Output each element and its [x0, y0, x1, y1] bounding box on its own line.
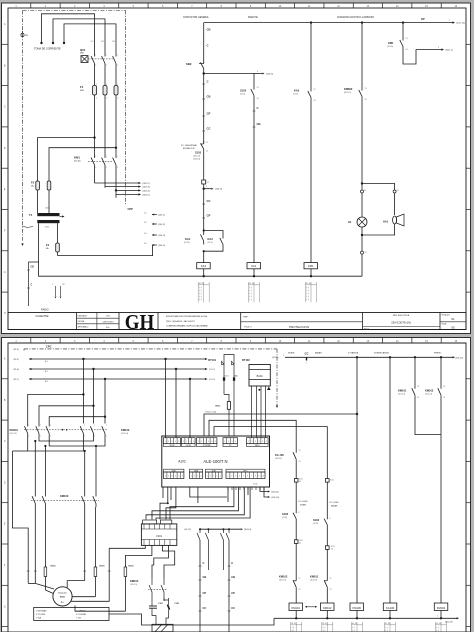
svg-text:APROBADO: APROBADO	[78, 326, 89, 329]
svg-text:2: 2	[40, 436, 41, 438]
crossover wire to KM101 pole1	[28, 394, 84, 423]
coil return bottom bus p2	[274, 617, 457, 619]
svg-text:1: 1	[106, 55, 107, 57]
svg-text:CP: CP	[231, 591, 235, 595]
bypass feeder wire left	[13, 451, 29, 583]
svg-text:2EVC3076-(N): 2EVC3076-(N)	[391, 321, 411, 325]
terminal X1 square on line 1	[202, 180, 206, 184]
svg-text:(301-4): (301-4)	[143, 190, 150, 192]
PE terminal	[21, 33, 24, 36]
svg-text:C: C	[231, 561, 233, 565]
svg-text:OP: OP	[421, 17, 425, 21]
page 2 inner border frame	[8, 343, 466, 632]
svg-text:1L1: 1L1	[91, 41, 94, 43]
svg-text:ALE-100/T N: ALE-100/T N	[203, 459, 227, 464]
A102 bottom terminal strip SUBIDA	[206, 472, 223, 479]
svg-text:-| -|: -| -|	[385, 627, 388, 629]
svg-text:4: 4	[175, 476, 176, 478]
svg-text:(31-16): (31-16)	[387, 46, 393, 48]
svg-text:-| -|: -| -|	[436, 627, 439, 629]
svg-text:0230: 0230	[45, 227, 49, 229]
svg-text:1: 1	[224, 441, 225, 443]
svg-text:RADIO: RADIO	[41, 309, 49, 312]
svg-text:5: 5	[262, 441, 263, 443]
svg-text:AVISADOR ACUSTICO-LUMINOSO: AVISADOR ACUSTICO-LUMINOSO	[337, 16, 374, 19]
svg-text:L: 5M: L: 5M	[76, 617, 81, 619]
svg-text:6: 6	[266, 441, 267, 443]
svg-text:KM101: KM101	[10, 428, 19, 432]
svg-text:KA106: KA106	[386, 606, 395, 610]
svg-text:(31-3): (31-3)	[14, 349, 20, 351]
bus terminal stub CC	[306, 357, 308, 360]
svg-text:9: 9	[259, 476, 260, 478]
svg-text:14: 14	[365, 99, 367, 101]
svg-text:R111: R111	[216, 406, 222, 408]
svg-text:DIBUJADO: DIBUJADO	[78, 314, 88, 317]
svg-text:4: 4	[235, 441, 236, 443]
svg-text:KM101: KM101	[310, 575, 319, 579]
svg-text:4: 4	[259, 441, 260, 443]
svg-text:(302-11): (302-11)	[272, 492, 280, 494]
svg-text:(101-4): (101-4)	[158, 245, 165, 247]
svg-text:1: 1	[84, 425, 85, 427]
svg-text:41 42: 41 42	[322, 623, 328, 625]
svg-text:TOMA DE CORRIENTE: TOMA DE CORRIENTE	[34, 48, 61, 51]
svg-text:(51-11): (51-11)	[184, 242, 190, 244]
svg-text:X111: X111	[299, 479, 303, 481]
svg-text:G.P.: G.P.	[106, 316, 110, 318]
wire A102 to V-rapida column	[204, 414, 357, 436]
brake coil KM104	[434, 603, 448, 611]
sobrecarga column wire	[389, 357, 391, 603]
terminal X111-02	[295, 522, 297, 540]
svg-text:D: D	[4, 147, 6, 150]
svg-text:41 42: 41 42	[436, 623, 442, 625]
svg-text:(47-6): (47-6)	[240, 94, 245, 96]
capacitor discharge wires	[152, 612, 156, 624]
reverser output crossover wires	[39, 438, 94, 442]
svg-text:KM1: KM1	[308, 264, 314, 268]
contactor coil KM101	[289, 603, 303, 611]
svg-text:1: 1	[96, 84, 97, 86]
svg-text:-| -|: -| -|	[306, 287, 309, 289]
svg-text:C: C	[207, 44, 209, 48]
svg-text:C/ ABERIN BEASAIN (GUIPUZCOA): C/ ABERIN BEASAIN (GUIPUZCOA) ESPAÑA	[166, 324, 208, 327]
svg-text:KA3: KA3	[208, 237, 214, 241]
svg-text:53: 53	[406, 38, 408, 40]
svg-text:S103: S103	[240, 89, 247, 93]
svg-text:1: 1	[40, 425, 41, 427]
svg-text:D: D	[4, 481, 6, 484]
svg-text:2: 2	[95, 65, 96, 67]
svg-text:(31-8): (31-8)	[293, 94, 298, 96]
phase wires to fuses	[94, 66, 96, 84]
A102 top terminal strip 4TS	[197, 438, 217, 444]
svg-text:M101: M101	[60, 596, 66, 598]
control line 1 wire upper	[203, 23, 205, 60]
transformer secondary wires	[38, 223, 40, 262]
arrow output 301-16	[264, 487, 268, 497]
svg-text:-| -|: -| -|	[249, 293, 252, 295]
svg-text:1: 1	[198, 441, 199, 443]
svg-text:TELF. (34)946690 - FAX 946721: TELF. (34)946690 - FAX 946721	[166, 320, 196, 323]
svg-text:KM102: KM102	[279, 575, 288, 579]
svg-text:-| -|: -| -|	[199, 287, 202, 289]
svg-text:22: 22	[299, 589, 301, 591]
svg-text:CB: CB	[207, 28, 211, 32]
svg-text:2: 2	[437, 616, 438, 618]
svg-text:2: 2	[117, 167, 118, 169]
svg-text:(101-12): (101-12)	[457, 23, 466, 25]
svg-text:G: G	[4, 271, 6, 274]
cross reference table under KA3	[197, 282, 199, 302]
radio feed wire	[29, 262, 39, 306]
svg-text:1: 1	[227, 476, 228, 478]
svg-text:-| -|: -| -|	[249, 290, 252, 292]
wire R111 to A102	[228, 409, 230, 436]
A102 top terminal strip VBUS	[164, 438, 181, 444]
svg-text:X1: X1	[207, 182, 209, 184]
wires KM100 down to motor terminals	[34, 507, 36, 583]
svg-text:(31-7): (31-7)	[14, 379, 20, 381]
svg-text:3: 3	[255, 441, 256, 443]
svg-text:(602-15): (602-15)	[344, 92, 352, 94]
svg-text:04: 04	[331, 549, 333, 551]
svg-text:23/07/2014: 23/07/2014	[103, 321, 115, 323]
svg-text:KA3: KA3	[201, 264, 207, 268]
mains enclosure dash-dot boundary	[23, 10, 126, 12]
svg-text:21: 21	[299, 578, 301, 580]
svg-text:SB2: SB2	[186, 62, 192, 66]
terminal X111-01	[295, 463, 297, 479]
staircase wires A102 right bottom	[170, 487, 234, 519]
svg-text:A-2: A-2	[45, 370, 48, 373]
svg-text:2: 2	[95, 167, 96, 169]
svg-text:KM102: KM102	[323, 606, 332, 610]
svg-text:CB: CB	[207, 95, 211, 99]
svg-text:(101-15): (101-15)	[130, 584, 138, 586]
svg-text:1: 1	[449, 20, 450, 22]
svg-text:41 42: 41 42	[199, 283, 205, 285]
control supply wire from F3 to CPP arrow	[58, 245, 153, 256]
svg-text:(101-14): (101-14)	[425, 394, 433, 396]
cross reference table under KA106 p2	[384, 622, 386, 632]
svg-text:E101: E101	[129, 566, 135, 568]
A102 top terminal strip VBOL	[247, 438, 269, 444]
page 2 right ruler ticks	[466, 378, 471, 380]
svg-text:C: C	[257, 106, 259, 110]
svg-text:X111: X111	[299, 540, 303, 542]
wire bus2 drop to A102	[175, 369, 177, 438]
svg-text:(105-16): (105-16)	[279, 580, 287, 582]
svg-text:3L2: 3L2	[101, 41, 104, 43]
freno branch contact KM102	[440, 357, 442, 385]
svg-text:-| -|: -| -|	[306, 299, 309, 301]
svg-text:05: 05	[451, 326, 455, 330]
control line 2 wire upper	[253, 74, 255, 87]
svg-text:(101-1): (101-1)	[158, 215, 165, 217]
svg-text:E101: E101	[51, 566, 57, 568]
svg-text:4: 4	[208, 441, 209, 443]
svg-text:4: 4	[217, 476, 218, 478]
A102 top terminal strip PC	[223, 438, 237, 444]
svg-text:A102: A102	[178, 460, 186, 464]
svg-text:-| -|: -| -|	[249, 287, 252, 289]
radio tap arrows	[55, 286, 57, 296]
V101 bottom wires to KM104	[162, 545, 174, 578]
page 1 outer border frame	[2, 3, 471, 334]
svg-text:(301-5): (301-5)	[143, 194, 150, 196]
svg-text:2: 2	[94, 436, 95, 438]
svg-text:S103: S103	[282, 512, 289, 516]
contactor coil KM1	[304, 263, 318, 269]
svg-text:L: CABLES: L: CABLES	[76, 609, 86, 612]
wire bus3 drop to A102	[189, 379, 191, 438]
svg-text:(31-16): (31-16)	[74, 161, 81, 163]
cross reference table under KM1	[305, 282, 307, 302]
svg-text:(105-13): (105-13)	[193, 156, 201, 158]
mechanical interlock symbol	[305, 606, 307, 608]
svg-text:KA3: KA3	[294, 89, 300, 93]
svg-text:PROTECCION: PROTECCION	[289, 325, 309, 329]
svg-text:3: 3	[172, 476, 173, 478]
svg-text:CC: CC	[305, 352, 309, 356]
svg-text:X100: X100	[253, 484, 257, 486]
svg-text:KM102: KM102	[425, 389, 434, 393]
svg-text:VBUS: VBUS	[169, 445, 175, 447]
discharge resistor hatched box	[152, 624, 173, 631]
svg-text:4: 4	[239, 476, 240, 478]
A102 bottom terminal strip BPC	[226, 472, 265, 479]
svg-text:01: 01	[299, 481, 301, 483]
svg-text:(31-6): (31-6)	[14, 369, 20, 371]
svg-text:(301-15): (301-15)	[456, 357, 464, 359]
svg-text:47Ωdm 0,46Ω: 47Ωdm 0,46Ω	[205, 411, 217, 413]
cross reference table under KM104 p2	[435, 622, 437, 632]
svg-text:KM104: KM104	[130, 579, 139, 583]
svg-text:14: 14	[417, 397, 419, 399]
terminal X111-04	[326, 528, 328, 546]
A102 bottom terminal strip LINE	[190, 472, 203, 479]
svg-text:6-1: 6-1	[144, 213, 147, 215]
wire to output 602-1	[403, 50, 442, 64]
svg-text:A-1: A-1	[45, 360, 48, 363]
svg-text:2: 2	[96, 98, 97, 100]
svg-text:5: 5	[211, 441, 212, 443]
svg-text:-| -|: -| -|	[199, 290, 202, 292]
svg-text:13: 13	[299, 450, 301, 452]
svg-text:2: 2	[231, 476, 232, 478]
cross reference table under KA1	[248, 282, 250, 302]
node junction 101-6	[203, 188, 205, 190]
svg-text:-| -|: -| -|	[306, 293, 309, 295]
limit switch S103 subir	[295, 482, 297, 510]
svg-text:-| -|: -| -|	[199, 299, 202, 301]
svg-text:INDUSTRIAS ELECTROMECANICAS GH: INDUSTRIAS ELECTROMECANICAS GH SA.	[166, 315, 208, 318]
svg-text:6: 6	[182, 476, 183, 478]
svg-text:3: 3	[213, 476, 214, 478]
svg-text:(201-3): (201-3)	[209, 379, 215, 381]
title block electrical ref subrow	[363, 326, 441, 328]
svg-text:54: 54	[406, 49, 408, 51]
contact KM1 top right	[402, 23, 404, 37]
svg-text:13: 13	[365, 88, 367, 90]
svg-text:21: 21	[314, 89, 316, 91]
svg-text:5: 5	[243, 476, 244, 478]
control line 1 wire lower	[203, 189, 205, 231]
svg-text:2: 2	[84, 436, 85, 438]
svg-text:CC: CC	[231, 606, 235, 610]
svg-text:KA 106: KA 106	[275, 453, 284, 457]
svg-text:SOBRECARGA: SOBRECARGA	[374, 352, 389, 355]
svg-text:CP: CP	[207, 112, 211, 116]
svg-text:ELEVACION: ELEVACION	[183, 147, 195, 150]
svg-text:F.C. ELEV: F.C. ELEV	[330, 502, 340, 504]
svg-text:8: 8	[255, 476, 256, 478]
svg-text:24: 24	[314, 100, 316, 102]
svg-text:2: 2	[117, 65, 118, 67]
svg-text:41 42: 41 42	[306, 283, 312, 285]
svg-text:KA1: KA1	[251, 264, 257, 268]
svg-text:CP: CP	[203, 591, 207, 595]
svg-text:0400: 0400	[45, 208, 49, 210]
V101 bottom wires to rotor resistors	[109, 545, 145, 548]
svg-text:-| -|: -| -|	[199, 293, 202, 295]
interlock contact KM101 NC	[326, 549, 328, 577]
svg-text:X1: X1	[364, 190, 366, 192]
svg-text:3: 3	[232, 441, 233, 443]
svg-text:KM101: KM101	[398, 389, 407, 393]
svg-text:2: 2	[50, 436, 51, 438]
A102 mid bottom wires	[190, 487, 198, 497]
motor wire rotor c	[75, 606, 125, 612]
bajar column upper wire	[326, 475, 328, 479]
svg-text:3: 3	[172, 441, 173, 443]
svg-text:6-2: 6-2	[144, 222, 147, 224]
control line 3 wire upper	[310, 23, 312, 88]
shield connection to PE	[23, 226, 34, 228]
svg-text:S103: S103	[313, 518, 320, 522]
svg-text:10: 10	[262, 476, 264, 478]
node junction to line 2	[203, 72, 205, 74]
supply terminal L2 wire	[53, 19, 105, 54]
control line 2 wire lower	[253, 99, 255, 263]
svg-text:(301-14): (301-14)	[244, 529, 252, 531]
svg-text:(101-2): (101-2)	[158, 224, 165, 226]
wire A102 to bajar column	[214, 427, 327, 475]
svg-text:41 42: 41 42	[352, 623, 358, 625]
svg-text:KM100: KM100	[60, 494, 69, 498]
svg-text:02: 02	[299, 543, 301, 545]
svg-text:1: 1	[117, 156, 118, 158]
svg-text:1: 1	[95, 156, 96, 158]
svg-text:1: 1	[117, 55, 118, 57]
svg-text:CB: CB	[31, 267, 35, 269]
svg-text:-| -|: -| -|	[291, 627, 294, 629]
motor M101	[53, 587, 72, 606]
svg-text:1: 1	[207, 476, 208, 478]
svg-text:(101-14): (101-14)	[121, 433, 129, 435]
svg-text:3: 3	[197, 476, 198, 478]
svg-text:X111: X111	[330, 480, 334, 482]
motor rating text box	[34, 608, 109, 621]
svg-text:1: 1	[183, 441, 184, 443]
wire bus3 to KM102 pole3	[104, 379, 106, 424]
svg-text:5: 5	[206, 186, 207, 188]
svg-text:(201-2): (201-2)	[209, 369, 215, 371]
branch lower wire	[361, 235, 363, 251]
svg-text:X1: X1	[365, 252, 367, 254]
svg-text:1: 1	[117, 84, 118, 86]
motor feed wires down to KM100	[34, 441, 36, 493]
svg-text:S103: S103	[195, 151, 202, 155]
svg-text:4: 4	[193, 441, 194, 443]
svg-text:1: 1	[165, 476, 166, 478]
wire to coil KM101	[295, 591, 297, 603]
A102 bottom terminal strip GND	[164, 472, 184, 479]
svg-text:1: 1	[50, 425, 51, 427]
svg-text:LINE: LINE	[194, 470, 199, 472]
wire A102 to subir column	[209, 420, 296, 440]
svg-text:SUBIR: SUBIR	[288, 353, 295, 355]
control return bottom bus	[39, 262, 362, 276]
svg-text:2: 2	[168, 441, 169, 443]
wires RT101 to diodes	[223, 366, 225, 377]
tap wire to transformer primary a	[38, 138, 95, 179]
svg-text:F.G.: F.G.	[106, 327, 110, 329]
svg-text:KM104: KM104	[437, 606, 446, 610]
title block drawn-by table	[96, 313, 98, 330]
svg-text:REF. ELECTRICA: REF. ELECTRICA	[393, 314, 410, 317]
cross reference table under KM100 p2	[351, 622, 353, 632]
limit switch S103 bajar	[326, 482, 328, 516]
svg-text:F1: F1	[80, 85, 84, 89]
control line 1 wire mid	[203, 74, 205, 144]
svg-text:6: 6	[247, 476, 248, 478]
svg-text:3~: 3~	[61, 600, 65, 604]
svg-text:41 42: 41 42	[385, 623, 391, 625]
svg-text:3: 3	[205, 441, 206, 443]
svg-text:5: 5	[178, 441, 179, 443]
svg-text:BAJAR: BAJAR	[315, 352, 322, 355]
svg-text:CILIM: CILIM	[186, 445, 191, 447]
supply terminal L1 wire	[42, 14, 95, 54]
svg-text:(31-12): (31-12)	[185, 529, 192, 531]
svg-text:RT101: RT101	[208, 358, 216, 362]
svg-text:C: C	[4, 106, 6, 109]
svg-text:(101-3): (101-3)	[158, 235, 165, 237]
svg-text:KM102: KM102	[121, 428, 130, 432]
svg-text:RT102: RT102	[242, 358, 250, 362]
svg-text:CLIENTE: CLIENTE	[35, 314, 48, 318]
svg-text:-| -|: -| -|	[352, 627, 355, 629]
page 1 right ruler ticks	[466, 43, 471, 45]
svg-text:2: 2	[201, 441, 202, 443]
svg-text:X1: X1	[397, 190, 399, 192]
cross reference table under KM101 p2	[290, 622, 292, 632]
relay coil KA3	[197, 263, 211, 269]
crossover wire to KM101 pole3	[49, 417, 105, 424]
contactor coil KM102	[321, 603, 335, 611]
svg-text:KM1: KM1	[388, 41, 394, 45]
svg-text:-| -|: -| -|	[306, 290, 309, 292]
relay coil KA106	[383, 603, 397, 611]
svg-text:C: C	[203, 561, 205, 565]
svg-text:(47-8): (47-8)	[313, 523, 318, 525]
svg-text:CONTACTOR GENERAL: CONTACTOR GENERAL	[183, 16, 210, 19]
svg-text:2: 2	[106, 98, 107, 100]
svg-text:5L3: 5L3	[112, 41, 115, 43]
